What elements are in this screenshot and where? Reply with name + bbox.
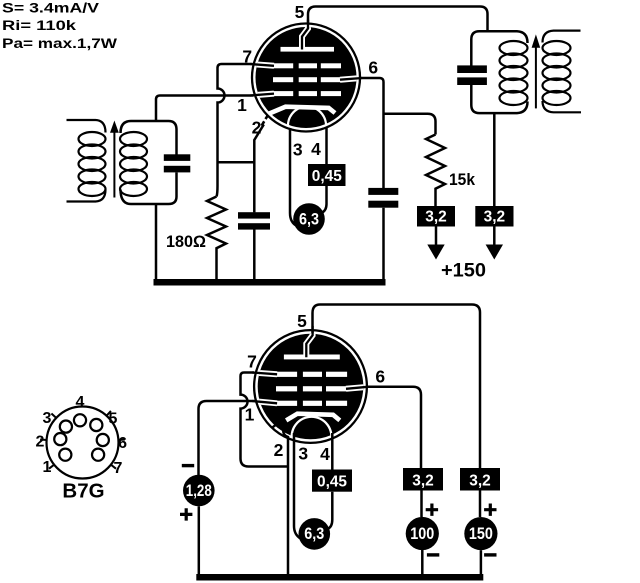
transformer T2 primary coil bbox=[500, 41, 528, 105]
pin 2 lead ring marks (V1) bbox=[262, 115, 269, 126]
ammeter box 3,2 (anode) bbox=[417, 206, 455, 227]
wire tank bottom to bus bbox=[155, 203, 158, 280]
wire box to meter 150 bbox=[479, 491, 482, 518]
minus label (1,28) bbox=[182, 464, 194, 467]
svg-text:3,2: 3,2 bbox=[425, 208, 447, 225]
plus label (1,28) bbox=[180, 508, 192, 520]
svg-text:3: 3 bbox=[293, 140, 303, 160]
svg-text:4: 4 bbox=[320, 444, 330, 464]
wire pin 6 (V2) to 100 branch bbox=[367, 387, 422, 468]
wire C2 to bus bbox=[253, 230, 256, 281]
ammeter box 3,2 (screen) bbox=[475, 206, 513, 227]
coupling capacitor C3 bbox=[368, 188, 398, 208]
svg-text:0,45: 0,45 bbox=[312, 168, 342, 185]
svg-text:+150: +150 bbox=[441, 261, 486, 282]
svg-text:15k: 15k bbox=[449, 170, 475, 189]
wire pin 2 down bbox=[254, 125, 263, 213]
output tank wiring bottom bbox=[471, 85, 527, 113]
B7G tick 7 bbox=[111, 465, 116, 469]
svg-text:6,3: 6,3 bbox=[299, 210, 319, 228]
svg-text:6: 6 bbox=[375, 367, 385, 387]
wire output tank to screen meter bbox=[493, 113, 496, 206]
B7G tick 2 bbox=[40, 439, 47, 442]
svg-text:3,2: 3,2 bbox=[469, 472, 491, 489]
svg-text:3,2: 3,2 bbox=[484, 208, 506, 225]
tuning capacitor C1 bbox=[164, 154, 191, 172]
transformer T2 coupling arrow bbox=[532, 34, 541, 108]
ground bus (top circuit) bbox=[154, 279, 386, 286]
wire C3 to bus bbox=[382, 208, 385, 280]
capacitor C2 bbox=[238, 212, 270, 229]
pentode V1 envelope bbox=[252, 24, 360, 132]
minus label (150) bbox=[484, 553, 496, 556]
svg-text:6: 6 bbox=[368, 58, 378, 78]
B7G tick 6 bbox=[118, 439, 125, 442]
plus label (100) bbox=[426, 504, 438, 516]
svg-text:B7G: B7G bbox=[62, 479, 104, 502]
wire pin 5 (V2) to 150 branch bbox=[313, 305, 481, 469]
ground bus (bottom circuit) bbox=[196, 574, 483, 581]
svg-text:5: 5 bbox=[297, 311, 307, 331]
wire meter 100 to bus bbox=[421, 550, 424, 576]
svg-text:Ri= 110k: Ri= 110k bbox=[2, 18, 77, 33]
tuning capacitor C4 bbox=[457, 65, 487, 85]
B7G tick 5 bbox=[107, 411, 111, 416]
svg-text:5: 5 bbox=[295, 2, 305, 22]
wire meter 150 to bus bbox=[480, 550, 483, 575]
svg-text:3: 3 bbox=[298, 444, 308, 464]
grid wire from tank to pin 1 bbox=[156, 96, 254, 123]
wire box to meter 100 bbox=[420, 491, 423, 518]
B7G base outline bbox=[47, 407, 119, 479]
battery meter 1,28 bbox=[183, 475, 215, 507]
svg-text:3,2: 3,2 bbox=[412, 472, 434, 489]
svg-text:4: 4 bbox=[76, 394, 85, 411]
ammeter box 3,2 (V2 screen) bbox=[403, 468, 443, 491]
B7G pin hole 3 bbox=[60, 421, 72, 433]
voltmeter 100 bbox=[406, 517, 439, 550]
B7G pin hole 5 bbox=[90, 419, 102, 431]
wire pin 3 (V2) bbox=[294, 433, 301, 539]
output tank wiring top bbox=[471, 31, 527, 65]
wire pin 2 (V2) to bus bbox=[283, 423, 288, 576]
svg-text:2: 2 bbox=[274, 440, 284, 460]
pin 2 lead ring marks (V2) bbox=[272, 419, 282, 428]
wire pin 4 (V2) bbox=[328, 433, 333, 529]
svg-text:6,3: 6,3 bbox=[304, 525, 324, 543]
svg-text:1,28: 1,28 bbox=[186, 482, 212, 500]
wire pin 7 to resistor (jog over grid wire) bbox=[217, 64, 253, 197]
B7G pin hole 7 bbox=[92, 449, 104, 461]
supply arrow (anode) bbox=[427, 227, 444, 260]
wire junction pin7-pin2 node bbox=[218, 161, 255, 164]
pentode V1 electrode body bbox=[250, 20, 362, 132]
svg-text:5: 5 bbox=[109, 410, 118, 427]
wire pin 5 top (V1) bbox=[308, 7, 488, 33]
tank circuit wiring top bbox=[121, 121, 177, 155]
svg-text:1: 1 bbox=[237, 95, 247, 115]
B7G pin hole 1 bbox=[59, 449, 71, 461]
ammeter box 0,45 (V1 heater) bbox=[308, 164, 346, 186]
wire pin 7 (V2) with jog bbox=[241, 373, 288, 467]
svg-text:2: 2 bbox=[252, 118, 262, 138]
svg-text:7: 7 bbox=[114, 460, 123, 477]
supply arrow (screen) bbox=[486, 227, 503, 260]
B7G pin hole 2 bbox=[54, 433, 66, 445]
voltmeter 6,3 (V2 heater) bbox=[299, 518, 331, 550]
svg-text:1: 1 bbox=[43, 459, 52, 476]
pentode V2 electrode body bbox=[252, 326, 369, 443]
B7G pin hole 6 bbox=[97, 434, 109, 446]
B7G tick 1 bbox=[49, 465, 54, 469]
resistor R2 15k bbox=[426, 135, 445, 207]
svg-text:0,45: 0,45 bbox=[317, 474, 347, 491]
transformer T1 secondary coil bbox=[120, 132, 147, 196]
svg-text:7: 7 bbox=[242, 47, 252, 67]
B7G tick 3 bbox=[51, 414, 56, 418]
resistor R1 180 ohm bbox=[207, 197, 226, 281]
wire pin 3 (V1) bbox=[290, 128, 297, 226]
transformer T1 coupling arrow bbox=[110, 121, 119, 198]
svg-text:2: 2 bbox=[36, 433, 45, 450]
ammeter box 3,2 (V2 anode) bbox=[460, 468, 500, 491]
wire pin 4 (V1) bbox=[322, 128, 327, 213]
wire pin 1 (V2) to battery bbox=[199, 401, 257, 475]
svg-text:Pa= max.1,7W: Pa= max.1,7W bbox=[2, 36, 117, 51]
transformer T2 secondary coil bbox=[543, 31, 582, 113]
wire battery to bus bbox=[198, 506, 201, 576]
transformer T1 primary coil bbox=[67, 120, 106, 202]
tank circuit wiring bottom bbox=[121, 173, 177, 205]
svg-text:3: 3 bbox=[43, 410, 52, 427]
svg-text:100: 100 bbox=[410, 525, 434, 543]
wire pin 6 (V1) to coupling node bbox=[361, 78, 384, 188]
svg-text:7: 7 bbox=[247, 352, 257, 372]
B7G pin hole 4 bbox=[74, 414, 86, 426]
svg-text:S= 3.4mA/V: S= 3.4mA/V bbox=[2, 0, 99, 15]
svg-text:180Ω: 180Ω bbox=[166, 232, 206, 251]
ammeter box 0,45 (V2 heater) bbox=[312, 470, 352, 492]
svg-text:4: 4 bbox=[311, 139, 321, 159]
voltmeter 150 bbox=[464, 517, 497, 550]
pentode V2 envelope bbox=[254, 330, 367, 443]
voltmeter 6,3 (V1 heater) bbox=[293, 203, 325, 235]
svg-text:150: 150 bbox=[469, 525, 493, 543]
svg-text:6: 6 bbox=[118, 435, 127, 452]
wire branch to R2 bbox=[384, 114, 436, 135]
plus label (150) bbox=[484, 504, 496, 516]
minus label (100) bbox=[427, 553, 439, 556]
